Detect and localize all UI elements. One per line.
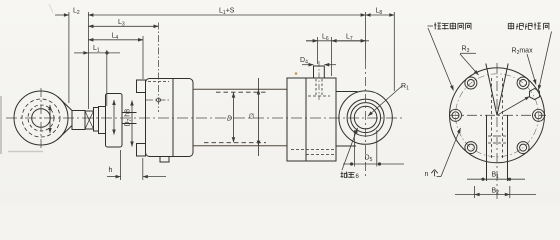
svg-text:h: h: [109, 167, 113, 174]
bearing label: [341, 172, 355, 179]
head cushion axis ext (L3 right): [158, 23, 160, 113]
right view h centerline: [449, 114, 546, 116]
D4 dim: [302, 64, 314, 66]
port nipple: [314, 66, 325, 78]
dim line L1+S: [88, 14, 365, 16]
tang hidden left: [491, 78, 493, 158]
head cushion screw circle: [157, 98, 161, 102]
bore dashed bottom: [204, 142, 266, 144]
rear eye hole: [354, 106, 377, 129]
D bore dim: [233, 93, 235, 143]
hole upper-left: [465, 77, 477, 89]
collar 1: [94, 108, 99, 132]
bearing ring: [351, 103, 381, 133]
cap internal line: [305, 78, 307, 161]
boss bottom connector: [336, 145, 356, 147]
tang hidden right: [502, 78, 504, 158]
tie rod nut top: [137, 80, 146, 93]
svg-text:∅: ∅: [249, 114, 255, 121]
hole upper-right: [517, 77, 529, 89]
B2 dim line: [455, 194, 536, 196]
gland flange: [106, 94, 123, 148]
rear eye boss: [339, 91, 392, 144]
dim line L1: [74, 52, 88, 54]
boss top connector: [336, 91, 358, 93]
dim line L6 L7: [306, 40, 369, 42]
D5 dim line: [343, 163, 404, 165]
ext line eye center top: [365, 12, 367, 60]
ext line L1 right: [106, 50, 108, 106]
bore dashed top: [216, 91, 266, 93]
dim line L4: [88, 39, 143, 41]
main centerline: [6, 117, 404, 119]
ext line boss right: [393, 12, 395, 91]
exhaust valve leader: [428, 25, 434, 27]
gland D7 dim: [131, 101, 133, 147]
eye vertical centerline: [40, 88, 42, 150]
hole lower-right: [517, 142, 529, 154]
fake CJK labels: [341, 23, 549, 181]
eye hole: [32, 109, 51, 128]
boss ring: [347, 99, 384, 136]
hole left: [450, 109, 462, 121]
eye taper top: [58, 97, 73, 111]
R3 underline and leader: [460, 52, 476, 54]
bearing leader: [342, 128, 358, 170]
eye taper bottom: [58, 126, 73, 140]
gland inner dim: [113, 100, 115, 135]
thread section: [72, 111, 85, 130]
hole lower-left: [465, 142, 477, 154]
bolt pitch circle: [456, 74, 539, 157]
rear eye vertical centerline: [365, 60, 367, 176]
port hidden bore: [315, 79, 317, 95]
rod eye outer: [14, 91, 68, 145]
n leader: [437, 176, 442, 178]
cap cushion hidden dashes: [291, 149, 335, 151]
D5 ext lines: [353, 130, 355, 167]
locknut X block: [85, 111, 94, 129]
scan artifacts: [295, 72, 298, 75]
slot hidden dashes: [488, 135, 506, 137]
svg-text:n: n: [425, 171, 429, 178]
tie rod nut bottom: [137, 144, 146, 157]
head hidden passage dashes: [148, 81, 169, 83]
R2 radius arrow: [497, 97, 530, 116]
dim line L3: [88, 25, 158, 27]
tang side right: [507, 115, 509, 181]
ext line L4 right: [142, 36, 144, 79]
dim line L8: [366, 14, 395, 16]
B2 ext lines: [474, 186, 476, 198]
L1 dot terminator: [105, 51, 108, 54]
head cushion axis: [146, 99, 171, 101]
R1 leader: [368, 86, 403, 117]
top dim line L2: [55, 14, 69, 16]
eye bore dim: [49, 105, 51, 133]
OD dim line: [258, 90, 260, 146]
R2max leader: [527, 54, 536, 85]
barrel bottom line: [193, 145, 287, 147]
flange outer circle: [450, 68, 545, 163]
cushion valve leader: [539, 32, 552, 91]
rear cap block: [287, 78, 336, 161]
cushion valve hex: [530, 89, 540, 100]
collar 2: [99, 107, 106, 134]
h dim: [107, 176, 121, 178]
tang side left: [486, 115, 488, 181]
exhaust check valve label: [434, 23, 471, 30]
ext lines L6: [317, 37, 319, 64]
head block: [146, 79, 194, 157]
hole right: [533, 109, 545, 121]
ge char: [431, 170, 437, 177]
bolt holes: [450, 77, 545, 154]
right view v centerline: [496, 63, 498, 199]
cushion valve label: [508, 23, 549, 30]
tang V left: [486, 64, 497, 116]
scan left edge shadow: [0, 96, 2, 154]
head bottom nub: [160, 157, 169, 163]
tang V right: [497, 64, 508, 116]
barrel top line: [193, 88, 287, 90]
B1 dim line: [467, 178, 525, 180]
port axis: [318, 61, 320, 100]
eye dashed circle 2: [28, 105, 54, 131]
svg-text:D: D: [227, 116, 232, 123]
ext line thread start: [87, 12, 89, 109]
h ext lines: [120, 150, 122, 180]
eye bearing dashed circle: [22, 99, 60, 137]
ext line rod shoulder: [68, 12, 70, 103]
head internal line: [172, 79, 174, 157]
rod stub to head: [122, 113, 137, 124]
